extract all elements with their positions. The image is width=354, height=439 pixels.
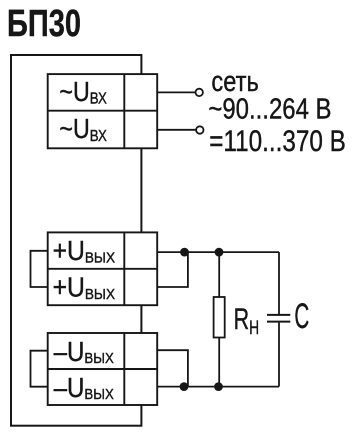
open terminal circle (mains L) — [196, 89, 203, 96]
wire -Uвых terminal 2 to load (bottom bus) — [157, 386, 279, 388]
wire top bus down to resistor — [218, 252, 220, 297]
wire +Uвых terminal 1 to load (top bus) — [157, 251, 279, 253]
wire capacitor to bottom bus — [278, 323, 280, 387]
wire input terminal 1 to mains — [157, 91, 195, 93]
svg-text:RН: RН — [234, 303, 260, 339]
junction dot top left — [180, 248, 189, 257]
output terminal block +Uвых — [48, 232, 158, 305]
open terminal circle (mains N) — [196, 126, 203, 133]
svg-text:~90...264 В: ~90...264 В — [208, 93, 331, 125]
output terminal block -Uвых — [48, 333, 158, 405]
resistor Rн body — [214, 297, 225, 338]
wire -Uвых terminal 1 down to bottom bus — [157, 350, 188, 386]
junction dot top right — [215, 248, 224, 257]
wire input terminal 2 to mains — [157, 129, 196, 131]
capacitor C bottom plate — [267, 321, 290, 323]
svg-text:C: C — [294, 297, 309, 336]
junction dot bottom left — [180, 382, 189, 391]
capacitor C top plate — [267, 314, 290, 316]
junction dot bottom right — [214, 382, 223, 391]
svg-text:=110...370 В: =110...370 В — [209, 125, 346, 158]
wire top bus down to capacitor — [278, 252, 280, 314]
input terminal block ~Uвх — [48, 74, 158, 148]
wire resistor to bottom bus — [218, 338, 220, 387]
jumper bracket between -Uвых terminals — [31, 351, 48, 387]
wire +Uвых terminal 2 up to top bus — [157, 252, 188, 287]
svg-text:БП30: БП30 — [7, 3, 81, 45]
jumper bracket between +Uвых terminals — [31, 251, 48, 287]
device outline (power supply unit body) — [11, 55, 141, 426]
